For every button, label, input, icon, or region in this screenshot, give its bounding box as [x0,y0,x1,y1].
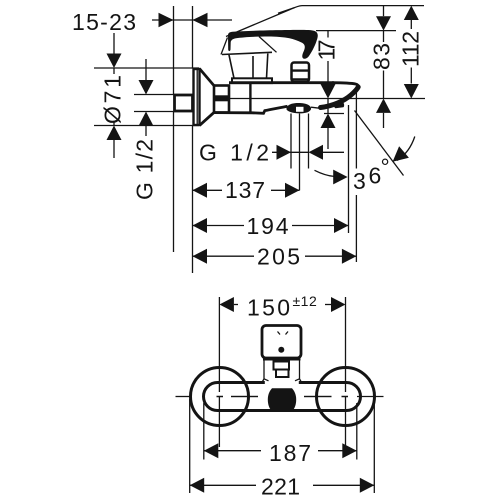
spout top edge [332,83,359,88]
raised-lever ghost line long [226,6,302,37]
node: underside reference line y=98.5 [229,98,425,100]
capsule centerline dashes inside [217,396,224,398]
diverter knob [292,63,310,82]
spout underside after port [311,107,323,108]
dimension 137 [193,183,208,198]
dimension 112 [404,6,419,20]
escutcheon cone top edge [200,69,215,86]
cartridge collar [232,78,272,83]
svg-text:6: 6 [369,163,382,189]
node: right pipe centerline vertical [345,297,347,392]
handle base block [222,52,272,78]
node: outlet vertical x=348.5 [348,105,350,233]
handle knob front: main head [262,326,301,359]
spout dark band [321,87,359,108]
dimension 221 [190,478,205,493]
svg-text:150: 150 [247,295,291,321]
svg-text:221: 221 [261,474,301,500]
svg-text:112: 112 [397,30,423,67]
body seam vertical [249,84,251,112]
dimension 36 degrees: leader diagonal [355,111,404,176]
node: spout outlet line y=113.5 [324,113,344,115]
knob head bottom band [263,358,301,360]
svg-text:187: 187 [269,440,312,466]
handle neck line [221,38,228,55]
node: port thread verticals [290,114,292,169]
handle knob front: gap in capsule top [265,379,299,385]
wall supply pipe G1/2 [175,95,193,111]
body capsule [204,383,361,411]
svg-text:17: 17 [314,39,340,61]
svg-text:°: ° [381,154,390,180]
knob neck sides [263,358,302,381]
knob stem steps [274,362,290,370]
escutcheon cone bottom edge [200,112,215,125]
wire: wall-plane vertical extension line x=173.5 [173,6,175,95]
horizontal centerline dashes y=396.5 [176,396,191,398]
bottom port bump [287,103,312,113]
neck base flare [264,379,300,381]
dimension 17 [327,31,329,38]
svg-text:15-23: 15-23 [72,9,137,35]
raised-lever ghost line short [278,8,295,14]
dimension 187 [204,443,219,458]
svg-text:±12: ±12 [293,293,318,309]
node: 187 extension lines [203,403,205,460]
dimension 83 [383,6,385,17]
node: left pipe centerline vertical [218,297,220,392]
svg-text:137: 137 [225,177,266,203]
dimension Ø71 left [94,67,199,69]
handle crease [259,37,277,53]
knob dot [278,347,284,353]
escutcheon face plate [194,69,200,125]
body bottom edge [214,106,288,113]
dimension 36 degrees: arc and arrow [397,137,415,161]
svg-text:83: 83 [369,42,395,70]
dimension G1/2 left pipe [134,94,174,96]
svg-text:205: 205 [257,244,301,270]
svg-text:Ø71: Ø71 [100,74,126,124]
node: lever top extension line y=30.6 [316,30,396,32]
dimension 194 [193,218,208,233]
dimension 205 [193,249,208,264]
wire: mounting-face vertical extension line x=192.5 [192,6,194,68]
dimension 36 degrees: second arrow at vertical [315,170,335,176]
right escutcheon circle [317,368,375,426]
svg-text:G 1/2: G 1/2 [199,140,270,166]
union nut collar [214,86,229,113]
node: spout tip vertical x=356.4 [355,91,357,169]
node: 221 extension lines [189,399,191,493]
svg-text:194: 194 [247,213,290,239]
lever dark body [228,30,318,59]
knob tick marks [278,332,289,335]
lever front dark blob [268,388,296,410]
svg-text:3: 3 [353,168,366,194]
aerator [334,103,344,109]
body top edge [229,81,334,84]
node: raised-lever top extension line y=5.6 [302,5,424,7]
left escutcheon circle [191,368,249,426]
svg-text:G 1/2: G 1/2 [132,138,158,200]
